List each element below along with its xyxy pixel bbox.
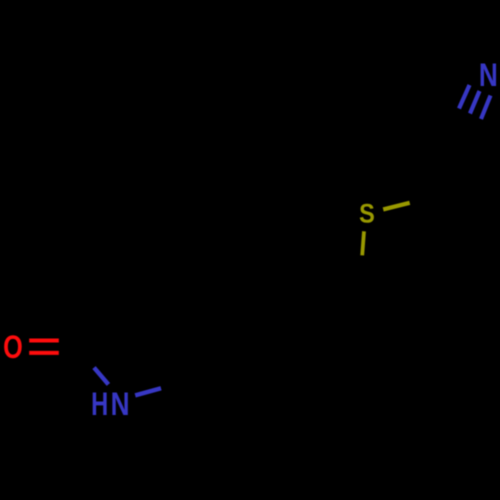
triple bond C#N line 2 (middle blue half-line) xyxy=(470,91,480,114)
triple bond C#N line 1 (left blue half-line) xyxy=(459,85,470,109)
svg-text:S: S xyxy=(359,199,375,229)
atom O (carbonyl oxygen) xyxy=(3,330,23,366)
double bond O=C (lower red half-line) xyxy=(29,351,59,355)
bond S-C5' (olive half, down from S) xyxy=(362,231,364,255)
svg-text:N: N xyxy=(111,388,130,423)
bond S-C2' (olive half, up-right from S) xyxy=(383,203,410,210)
atom S (thiophene sulfur) xyxy=(359,199,375,229)
bond N-C7a (blue half, up-right from NH) xyxy=(135,388,161,395)
atom N (amide nitrogen) xyxy=(111,388,130,423)
triple bond C#N line 3 (right blue half-line) xyxy=(481,96,491,120)
atom H (amide hydrogen) xyxy=(91,387,108,422)
svg-text:O: O xyxy=(3,330,23,366)
double bond O=C (upper red half-line) xyxy=(29,339,59,343)
bond N-C2 (blue half, up-left from NH) xyxy=(94,368,108,385)
svg-text:N: N xyxy=(479,59,498,94)
svg-text:H: H xyxy=(91,387,108,422)
atom N (nitrile nitrogen) xyxy=(479,59,498,94)
